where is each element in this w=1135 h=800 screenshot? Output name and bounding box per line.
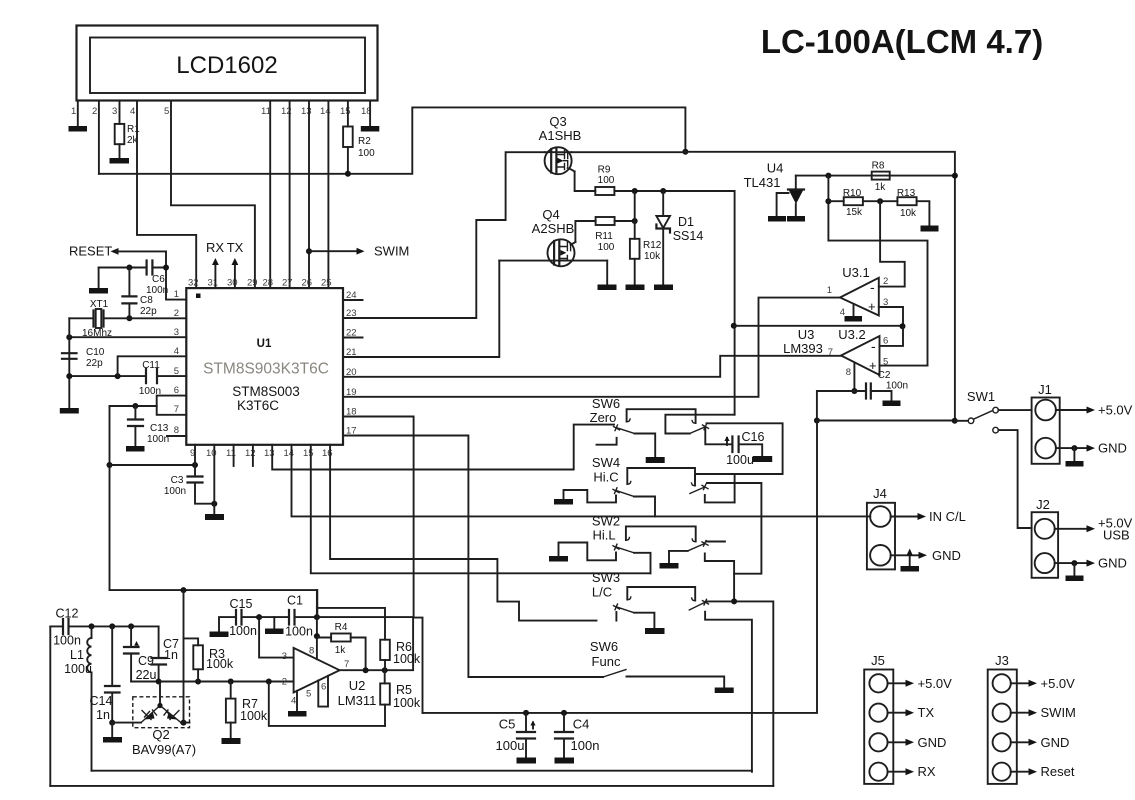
capacitor C14 (111, 626, 113, 722)
svg-text:+: + (868, 299, 876, 314)
svg-text:7: 7 (344, 659, 349, 670)
svg-text:100n: 100n (886, 381, 908, 392)
svg-text:3: 3 (282, 651, 287, 662)
U1 left pin numbers (174, 289, 179, 436)
resistor R4 (317, 638, 366, 671)
svg-text:100n: 100n (571, 738, 600, 753)
wire U1 pin19 to U3.1 output (343, 298, 841, 397)
wire SW1 upper throw to J1 (998, 409, 1031, 411)
svg-text:+5.0V: +5.0V (1098, 403, 1133, 418)
connector J1 (1032, 382, 1060, 464)
bottom bus2 (50, 785, 773, 787)
RX arrow (214, 263, 216, 288)
connector J5 (864, 653, 893, 784)
svg-text:J3: J3 (995, 653, 1009, 668)
svg-text:8: 8 (174, 425, 179, 436)
wire J3 SWIM (1011, 712, 1030, 714)
SW6 left bracket (597, 438, 617, 445)
SW3 left moving contact (614, 604, 620, 610)
svg-text:U3.2: U3.2 (838, 327, 865, 342)
SW4 left output to J4 line (634, 497, 655, 517)
svg-text:XT1: XT1 (90, 299, 109, 310)
capacitor C6 (99, 267, 166, 269)
wire J5 TX (888, 712, 907, 714)
svg-text:U1: U1 (257, 338, 272, 350)
svg-text:10k: 10k (900, 208, 917, 219)
switch SW6 Func (590, 639, 734, 693)
resistor R10 (844, 197, 863, 205)
svg-text:K3T6C: K3T6C (237, 398, 279, 413)
SW2 left ground feed (549, 556, 568, 562)
svg-text:R12: R12 (643, 240, 662, 251)
wire U1 pin4 jog (118, 356, 187, 376)
capacitor C5 100u (525, 713, 527, 758)
svg-text:100: 100 (598, 175, 615, 186)
LCD pin1 wire (77, 101, 79, 127)
svg-text:SW6: SW6 (592, 396, 620, 411)
resistor R6 (380, 640, 390, 660)
SW4 right bracket (705, 495, 735, 503)
ground LCD pin1 (69, 126, 88, 132)
wire U1 pin8 stub (167, 435, 186, 437)
svg-text:J4: J4 (873, 486, 887, 501)
svg-text:22u: 22u (136, 668, 157, 682)
LCD pin18 wire (369, 101, 371, 127)
ground R13 (921, 226, 939, 232)
ground U4 ref (768, 216, 786, 222)
wire R10 rail (828, 176, 927, 366)
wire U1 pin14 to J4 (292, 445, 871, 517)
wire R10-R13 junction down to U3.1 pin2 (879, 201, 905, 286)
svg-text:LM393: LM393 (783, 341, 823, 356)
SW2 right lever (688, 544, 704, 551)
SW2 hook bar (626, 526, 696, 541)
svg-text:100k: 100k (393, 652, 421, 666)
SW3 left bracket riser (615, 612, 617, 621)
svg-text:TL431: TL431 (744, 175, 781, 190)
resistor R5 (384, 670, 386, 726)
wire +5 bus from LCD pin2 to Q3 drain (99, 107, 686, 173)
SW6 left output to ground (635, 434, 656, 458)
wire U3.1 pin3 to bus (879, 307, 903, 327)
wire R9 to bus junctions (614, 191, 734, 415)
wire Q4 drain up to R11 (575, 221, 595, 242)
oscillator top bus (110, 590, 318, 617)
svg-text:25: 25 (321, 278, 332, 289)
bottom bus1 (92, 770, 752, 772)
wire U2 feedback bottom loop (269, 682, 385, 726)
capacitor C8 (128, 268, 130, 319)
SW3 right lever (689, 603, 704, 610)
wire J4 pin1 IN C/L (891, 516, 919, 518)
wire U3.1 pin4 ground stub (853, 304, 855, 316)
ground R7 (222, 738, 241, 744)
svg-text:100u: 100u (726, 453, 754, 467)
wire U1 pin22 stub (343, 337, 363, 339)
wire U1 pin10 to ground (213, 445, 215, 514)
svg-text:2: 2 (282, 677, 287, 688)
wire C12 left down to bus2 (49, 626, 51, 786)
svg-text:1k: 1k (875, 182, 887, 193)
svg-text:GND: GND (1098, 441, 1127, 456)
svg-text:100n: 100n (285, 625, 313, 639)
svg-text:100k: 100k (240, 709, 268, 723)
wire U1 pin6-pin7 loop (157, 396, 187, 415)
wire J5 RX (888, 771, 907, 773)
svg-text:-: - (870, 279, 875, 295)
svg-text:15: 15 (303, 448, 314, 459)
LCD pin14 wire to U1 pin25 (327, 101, 329, 289)
svg-text:LCD1602: LCD1602 (176, 52, 277, 79)
wire U1 pin9 stub (194, 445, 196, 465)
switch SW2 Hi.L (549, 514, 734, 602)
svg-text:100n: 100n (53, 634, 81, 648)
SW6 left moving contact (614, 425, 620, 431)
svg-text:+: + (869, 358, 877, 373)
svg-text:22p: 22p (86, 358, 103, 369)
SW3 left output to ground (634, 613, 654, 628)
LCD pin numbers (71, 106, 372, 117)
svg-text:RX: RX (206, 240, 224, 255)
SW6 left lever (617, 428, 635, 434)
svg-text:4: 4 (130, 106, 135, 117)
SW3 hook bar (627, 587, 695, 601)
wire J1 pin1 +5.0V (1056, 409, 1088, 411)
Func right line to ground (627, 677, 725, 688)
wire C16 loop tee down to SW4 right bracket (734, 474, 736, 502)
svg-text:C2: C2 (878, 370, 891, 381)
svg-text:Q2: Q2 (152, 727, 169, 742)
svg-text:1: 1 (174, 289, 179, 300)
switch SW3 L/C (592, 570, 773, 786)
svg-text:32: 32 (188, 278, 199, 289)
oscillator node line to U2 pin2 (131, 681, 294, 683)
MCU U1 STM8S903K3T6C (186, 288, 343, 445)
svg-text:6: 6 (174, 385, 179, 396)
resistor R13 (897, 197, 916, 205)
svg-text:12: 12 (245, 448, 256, 459)
wire U1 pin21 to Q4 (343, 261, 499, 357)
LCD pin3 wire (119, 101, 121, 159)
svg-text:SW1: SW1 (967, 389, 995, 404)
capacitor C10 (62, 353, 77, 359)
svg-text:GND: GND (932, 548, 961, 563)
inductor L1 (64, 626, 92, 770)
SW2 right lever output to ground (669, 551, 688, 563)
svg-text:SW3: SW3 (592, 570, 620, 585)
svg-text:C16: C16 (742, 430, 765, 444)
svg-text:BAV99(A7): BAV99(A7) (132, 742, 196, 757)
svg-text:6: 6 (321, 682, 326, 693)
svg-text:100k: 100k (393, 696, 421, 710)
U1 right pin numbers (346, 290, 357, 437)
svg-text:15: 15 (340, 106, 351, 117)
capacitor C11 (146, 369, 157, 383)
svg-text:28: 28 (263, 278, 274, 289)
svg-text:4: 4 (291, 696, 296, 707)
ground R1 (110, 158, 130, 164)
wire U1 pin13 to SW6 (272, 425, 614, 470)
SW6 right lever (690, 427, 704, 433)
svg-text:3: 3 (112, 106, 117, 117)
svg-text:Reset: Reset (1041, 764, 1075, 779)
SW6 right bracket to R9 bus riser (665, 415, 734, 434)
svg-text:27: 27 (282, 278, 293, 289)
capacitor C13 (134, 406, 136, 446)
svg-text:100u: 100u (496, 738, 525, 753)
switch SW1 (955, 389, 999, 433)
svg-text:R1: R1 (127, 124, 140, 135)
wire C1 riser (316, 590, 318, 659)
svg-text:1k: 1k (335, 645, 347, 656)
svg-text:8: 8 (846, 367, 851, 378)
SW2 right bracket down to SW3 (705, 554, 734, 602)
LCD pin5 wire to U1 pin29 (171, 101, 255, 289)
connector J3 (988, 653, 1017, 784)
ground LCD pin18 (361, 126, 380, 132)
wire J3 Reset (1011, 771, 1030, 773)
svg-text:LC-100A(LCM 4.7): LC-100A(LCM 4.7) (761, 23, 1043, 60)
wire C1 node to pin18 node (317, 616, 414, 618)
svg-text:7: 7 (828, 347, 833, 358)
svg-text:U2: U2 (349, 678, 366, 693)
svg-text:22p: 22p (140, 306, 157, 317)
wire loop tap left (110, 405, 157, 407)
wire U1 pin16 to SW3 (330, 445, 596, 621)
svg-text:Q3: Q3 (549, 114, 566, 129)
wire R11 right to R12 (615, 220, 635, 222)
wire U2 pin4 ground (296, 691, 298, 711)
svg-text:SW2: SW2 (592, 514, 620, 529)
comparator bus node line (735, 325, 903, 327)
svg-text:Func: Func (592, 654, 621, 669)
svg-text:D1: D1 (678, 215, 694, 229)
voltage ref U4 TL431 (744, 161, 804, 217)
svg-text:C6: C6 (152, 274, 165, 285)
SW2 left output to pin15 line (634, 553, 651, 574)
svg-text:R10: R10 (843, 188, 862, 199)
LCD pin2 wire to +5 bus (98, 101, 100, 174)
wire U1 pin15 to SW2 (311, 445, 651, 574)
SW4 left lever (616, 491, 634, 497)
SW6 hook bar (627, 409, 696, 423)
wire Q4 source to ground (606, 261, 608, 285)
svg-text:J5: J5 (871, 653, 885, 668)
svg-text:GND: GND (1098, 556, 1127, 571)
svg-text:1: 1 (827, 285, 832, 296)
wire J4 pin2 GND (891, 554, 920, 556)
wire U3.2 pin6 to bus (880, 326, 904, 346)
svg-text:100: 100 (358, 148, 375, 159)
SW4 hook bar (627, 468, 695, 486)
ground C13 (126, 446, 145, 452)
switch SW4 Hi.C (554, 455, 761, 574)
wire Q3 drain right (572, 152, 955, 421)
svg-text:C15: C15 (230, 597, 253, 611)
svg-text:R13: R13 (897, 188, 916, 199)
SW3 right moving contact wire to bus2 riser (707, 601, 773, 786)
wire U1 pin3 (69, 336, 186, 338)
LCD pin4 wire to U1 pin32 (137, 101, 196, 289)
svg-text:4: 4 (840, 307, 845, 318)
resistor R11 (596, 217, 615, 225)
resistor R9 (595, 187, 614, 195)
transistor Q4 A2SHB (499, 207, 607, 266)
wire R6 top line (317, 608, 385, 640)
svg-text:C13: C13 (150, 423, 169, 434)
U1 bottom pin numbers (190, 448, 333, 459)
svg-text:10k: 10k (644, 251, 661, 262)
svg-text:U3.1: U3.1 (842, 265, 869, 280)
SW4 right lever (690, 488, 704, 494)
svg-text:7: 7 (174, 404, 179, 415)
wire pin9 node line (110, 464, 196, 466)
svg-text:C10: C10 (86, 347, 105, 358)
svg-text:A1SHB: A1SHB (539, 128, 582, 143)
svg-text:C12: C12 (56, 607, 79, 621)
svg-text:Zero: Zero (590, 410, 617, 425)
svg-text:6: 6 (883, 336, 888, 347)
SW4 left moving contact (613, 488, 619, 494)
svg-text:C5: C5 (499, 717, 516, 732)
svg-text:31: 31 (208, 278, 219, 289)
resistor R2 (343, 127, 353, 148)
wire J2 pin1 +5.0V USB (1055, 528, 1088, 530)
svg-text:Hi.C: Hi.C (593, 470, 618, 485)
op-amp U3.1 (827, 265, 889, 318)
svg-text:C1: C1 (287, 594, 303, 608)
svg-text:SW6: SW6 (590, 639, 618, 654)
svg-text:C3: C3 (171, 475, 184, 486)
LCD pin13 wire to U1 pin26 (308, 101, 310, 289)
svg-text:A2SHB: A2SHB (532, 221, 575, 236)
svg-text:100u: 100u (64, 662, 92, 676)
capacitor C1 (259, 616, 317, 618)
transistor Q3 A1SHB (539, 114, 582, 174)
svg-text:100: 100 (598, 242, 615, 253)
svg-text:C8: C8 (140, 295, 153, 306)
svg-text:2: 2 (883, 276, 888, 287)
svg-text:14: 14 (284, 448, 295, 459)
svg-text:5: 5 (164, 106, 169, 117)
SW4 right output wire (707, 483, 761, 574)
wire U3.2 pin5 (880, 365, 928, 367)
wire J1 pin2 GND (1056, 447, 1088, 449)
svg-text:STM8S003: STM8S003 (232, 384, 300, 399)
ground tap left of C1 (273, 617, 275, 628)
svg-text:C9: C9 (138, 654, 154, 668)
wire Q3 source to R9 (575, 172, 596, 192)
ground U3.1 pin4 (845, 316, 863, 322)
LCD pin12 wire to U1 pin27 (289, 101, 291, 289)
TX arrow (234, 263, 236, 288)
svg-text:1n: 1n (96, 708, 110, 722)
resistor R8 (872, 172, 890, 180)
svg-text:L/C: L/C (592, 585, 612, 600)
wire R13 right to ground (917, 201, 930, 225)
capacitor C12 (50, 625, 158, 627)
wire U2 pin7 output line (340, 618, 414, 671)
svg-text:2: 2 (92, 106, 97, 117)
U2 pin5/6 open stub (318, 676, 328, 707)
svg-text:R4: R4 (335, 622, 348, 633)
ground U4 anode (787, 216, 805, 222)
wire C16 outer loop to SW4 (695, 423, 783, 479)
ground R12 (626, 285, 645, 291)
U1 top pin numbers (188, 278, 332, 289)
svg-text:13: 13 (301, 106, 312, 117)
resistor R7 (230, 682, 232, 739)
wire RESET to U1 pin1 (166, 251, 186, 299)
svg-text:SWIM: SWIM (1041, 705, 1076, 720)
wire U1 pin24 stub (343, 299, 363, 301)
svg-text:C14: C14 (90, 694, 113, 708)
svg-text:GND: GND (918, 735, 947, 750)
ground C2 (883, 401, 901, 407)
svg-text:100n: 100n (164, 486, 186, 497)
Func lever (603, 670, 626, 678)
svg-text:GND: GND (1041, 735, 1070, 750)
wire pin18 node jog down to C5 line (414, 618, 423, 713)
capacitor C16 (705, 428, 772, 467)
svg-text:J2: J2 (1036, 497, 1050, 512)
wire C5/C4 top line (423, 421, 818, 713)
op-amp U3.2 (783, 327, 888, 378)
svg-text:U3: U3 (798, 327, 815, 342)
svg-text:USB: USB (1103, 528, 1130, 543)
SW3 right bracket to bus1 riser (705, 612, 752, 772)
LCD1602 module (77, 26, 378, 101)
LCD pin15 wire (347, 101, 349, 174)
wire J3 GND (1011, 741, 1030, 743)
ground D1 (654, 285, 673, 291)
LCD pin11 wire to U1 pin28 (269, 101, 271, 289)
ground pin10 (205, 514, 224, 520)
svg-text:U4: U4 (767, 161, 784, 176)
capacitor C2 (854, 391, 891, 401)
wire U1 pin23 to Q3 gate (343, 152, 545, 318)
capacitor C15 (219, 617, 259, 631)
wire U1 pin5 line with C11 (69, 375, 186, 377)
svg-text:100n: 100n (147, 434, 169, 445)
svg-text:RX: RX (918, 764, 936, 779)
svg-text:5: 5 (306, 689, 311, 700)
wire bus to SW1 (817, 420, 955, 422)
svg-text:15k: 15k (846, 207, 863, 218)
svg-text:SWIM: SWIM (374, 244, 409, 259)
wire top bus branch down to Q2 (183, 590, 185, 723)
capacitor C9 22u (130, 626, 132, 681)
wire U3.2 pin8 down (853, 363, 855, 391)
wire J5 GND (888, 741, 907, 743)
SW3 left lever (617, 607, 634, 613)
wire pin8 node to SW1 bus (817, 391, 855, 421)
wire SW1 lower throw to J2 (998, 430, 1031, 528)
SW2 right moving contact stub (707, 541, 725, 543)
node R2 bottom (345, 171, 351, 177)
svg-text:R11: R11 (595, 231, 613, 242)
svg-text:J1: J1 (1038, 382, 1052, 397)
ground C14 (111, 723, 113, 737)
ground Q4 (598, 285, 617, 291)
crystal XT1 (69, 317, 186, 319)
svg-text:100k: 100k (206, 657, 234, 671)
node Q3 top junction (682, 149, 688, 155)
svg-text:IN C/L: IN C/L (929, 509, 966, 524)
SW4 left ground feed (554, 499, 573, 505)
capacitor C7 (158, 626, 160, 681)
svg-text:C4: C4 (573, 717, 590, 732)
